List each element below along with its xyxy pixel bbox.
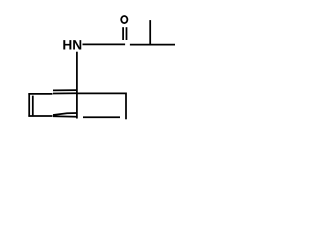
chemical structure: N-(bicyclic aryl) isobutyramide skeletal formula bbox=[0, 0, 203, 138]
wire: ring bottom double bond axis line bbox=[53, 115, 78, 117]
wire: ring2 top bond bbox=[78, 92, 127, 94]
wire: C=O double bond line b bbox=[126, 27, 128, 40]
wire: methyl branch up from CH bbox=[149, 20, 151, 45]
wire: bond carbonyl C to CH bbox=[130, 44, 175, 46]
node HN: amide nitrogen label, letter N bbox=[73, 40, 81, 49]
wire: N down through ring right edge bbox=[76, 52, 78, 119]
wire: ring top-left single bond bbox=[28, 93, 52, 95]
wire: ring bottom double bond outer line bbox=[53, 113, 78, 115]
node HN: amide nitrogen label, letter H bbox=[63, 40, 71, 49]
wire: ring2 bottom bond bbox=[83, 116, 120, 118]
wire: ring left outer edge bbox=[28, 93, 30, 117]
node O: carbonyl oxygen label bbox=[121, 16, 127, 23]
wire: bond N to carbonyl C bbox=[83, 43, 126, 45]
wire: ring bottom-left single bond bbox=[28, 115, 52, 117]
wire: ring left inner double bond line bbox=[32, 96, 34, 116]
wire: ring top double bond axis line bbox=[53, 92, 78, 94]
wire: ring2 right edge bbox=[125, 93, 127, 120]
wire: ring top double bond outer line bbox=[53, 89, 78, 91]
wire: C=O double bond line a bbox=[122, 27, 124, 40]
